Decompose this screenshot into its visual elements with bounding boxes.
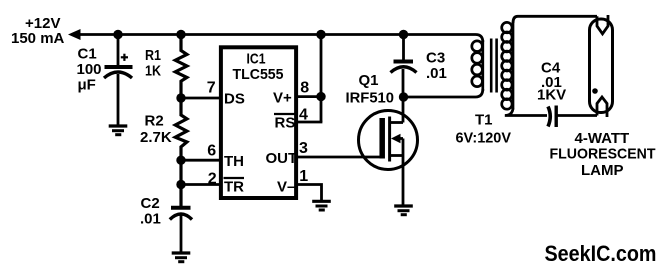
svg-text:1KV: 1KV [537,87,566,104]
transistor Q1 body arrow [391,134,401,143]
junction: R1/R2/pin7 node [176,93,185,102]
resistor R1 [175,35,187,99]
ground C2 [172,253,191,262]
junction: TR node [176,180,185,189]
svg-text:8: 8 [300,79,309,96]
svg-text:C3: C3 [426,50,445,67]
junction: R1 to rail [176,30,185,39]
svg-text:3: 3 [299,140,308,157]
svg-text:IC1: IC1 [247,51,266,68]
wire pin 2 [181,183,221,186]
wire pin 8 [296,95,321,98]
svg-text:T1: T1 [475,112,493,129]
wire C2 bottom lead [180,215,183,252]
svg-text:1: 1 [299,168,308,185]
capacitor C2 [170,208,192,220]
wire C1 bottom lead [117,74,120,125]
transistor Q1 drain stub [390,121,403,124]
wire secondary bottom to C4 [505,109,547,116]
wire C4 to lamp bottom [556,114,597,117]
svg-text:TLC555: TLC555 [233,66,284,83]
svg-text:4-WATT: 4-WATT [575,130,630,147]
junction: drain/C3/primary node [399,92,408,101]
svg-text:R2: R2 [145,113,164,130]
svg-text:V+: V+ [273,90,292,107]
svg-text:7: 7 [207,79,216,96]
wire pin 7 [181,97,221,100]
lamp dot [592,88,598,94]
wire C1 top lead [117,35,120,66]
wire C3 bottom lead [402,69,405,97]
transistor Q1 source stub [390,154,403,157]
capacitor C1 [104,54,133,78]
svg-text:R1: R1 [145,47,161,64]
lamp top filament [597,15,608,34]
svg-text:C1: C1 [78,46,97,63]
wire top +12V rail [78,35,483,43]
wire C3 top lead [402,35,405,61]
wire source lead to ground [402,156,405,206]
svg-text:SeekIC.com: SeekIC.com [545,241,657,266]
wire pin 4 [296,121,322,124]
svg-text:150 mA: 150 mA [11,30,65,47]
svg-text:DS: DS [224,91,245,108]
lamp tube outline [590,19,613,113]
+12V supply arrow [68,29,81,40]
lamp bottom filament [597,97,607,117]
svg-text:2.7K: 2.7K [140,129,172,146]
wire pin 6 [181,159,221,162]
op IC1 TLC555 box [221,47,296,198]
svg-text:TR: TR [224,179,244,196]
transformer T1 primary winding [472,40,483,91]
svg-text:.01: .01 [426,65,447,82]
wire drain lead [402,97,405,123]
svg-text:LAMP: LAMP [581,162,624,179]
svg-text:TH: TH [224,153,244,170]
svg-text:FLUORESCENT: FLUORESCENT [550,146,656,163]
resistor R2 [175,98,187,207]
svg-text:.01: .01 [140,211,161,228]
wire pin 3 to gate [296,156,382,159]
junction: pin8/pin4 branch [316,92,325,101]
ground pin 1 [312,201,331,210]
svg-text:6: 6 [207,142,216,159]
wire secondary top to lamp [513,16,597,23]
svg-text:OUT: OUT [266,150,298,167]
svg-text:100: 100 [77,61,102,78]
svg-text:1K: 1K [145,63,161,80]
capacitor C3 [391,62,417,73]
junction: C3 branch to rail [399,30,408,39]
svg-text:IRF510: IRF510 [346,90,395,107]
transformer T1 core [490,39,493,93]
svg-text:Q1: Q1 [359,72,379,89]
transistor Q1 channel bar [388,117,391,162]
svg-text:μF: μF [78,77,96,94]
junction: C1 to rail [113,30,122,39]
ground Q1 source [394,206,413,215]
transistor Q1 body circle [359,111,418,170]
wire V+ vertical branch [320,35,323,123]
junction: TH node [176,156,185,165]
svg-text:V–: V– [277,179,295,196]
ground C1 [109,126,128,135]
junction: V+ branch to rail [316,30,325,39]
wire drain to primary [404,89,483,97]
wire Q1 body-source link [402,139,405,156]
transformer T1 secondary winding [502,22,513,110]
svg-text:2: 2 [208,170,217,187]
svg-text:RS: RS [275,115,296,132]
svg-text:C2: C2 [141,195,160,212]
capacitor C4 [548,106,556,128]
wire pin 1 to ground [296,185,322,201]
svg-text:6V:120V: 6V:120V [456,130,512,147]
transistor Q1 gate bar [379,118,385,159]
